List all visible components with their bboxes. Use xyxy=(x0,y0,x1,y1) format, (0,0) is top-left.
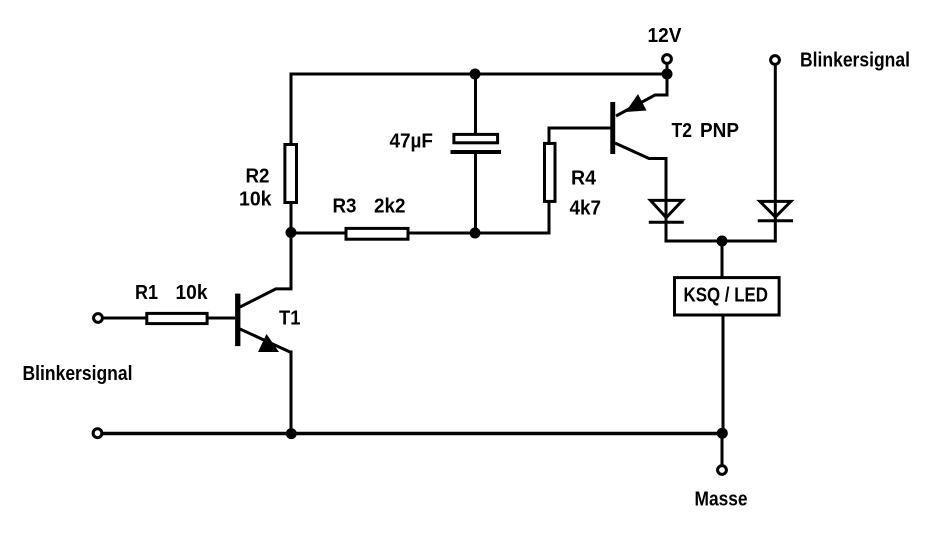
transistor T2 base bar xyxy=(610,102,615,154)
wire top rail to capacitor xyxy=(474,74,477,134)
node E junction dot xyxy=(717,236,728,247)
resistor R4 xyxy=(545,143,556,201)
node C junction dot (cap to top rail) xyxy=(470,69,481,80)
node D junction dot (12V) xyxy=(662,69,673,80)
terminal 12V open circle xyxy=(663,55,672,64)
wire T1 emitter xyxy=(240,329,291,433)
diode D1 cathode bar xyxy=(649,221,684,224)
svg-text:Masse: Masse xyxy=(695,489,748,511)
wire 12V terminal to rail xyxy=(666,63,669,74)
wire T2 emitter from 12V node xyxy=(616,74,667,116)
wire node E to KSQ box xyxy=(721,241,724,278)
diode D2 triangle xyxy=(760,201,791,217)
resistor R1 xyxy=(147,313,207,323)
diode D2 cathode bar xyxy=(758,219,793,222)
capacitor C1 47uF bottom plate xyxy=(451,150,502,154)
svg-text:Blinkersignal: Blinkersignal xyxy=(800,50,910,72)
resistor R2 xyxy=(285,145,297,203)
wire input terminal to R1 xyxy=(103,317,148,320)
svg-text:47µF: 47µF xyxy=(390,131,434,153)
transistor T1 emitter arrow xyxy=(258,334,279,352)
svg-text:10k: 10k xyxy=(239,189,272,211)
terminal input open circle (left top) xyxy=(94,314,103,323)
wire R1 to T1 base xyxy=(207,317,235,320)
svg-text:2k2: 2k2 xyxy=(374,196,406,218)
svg-text:12V: 12V xyxy=(648,25,683,47)
svg-text:T1: T1 xyxy=(279,308,301,330)
terminal Blinkersignal right open circle xyxy=(771,56,780,65)
wire node B to R4 bottom xyxy=(475,202,549,233)
svg-text:R4: R4 xyxy=(571,168,597,190)
transistor T2 emitter arrow xyxy=(626,94,647,112)
wire top rail from R2 top corner to 12V node xyxy=(291,74,667,145)
wire T2 collector down through diode D1 to node E xyxy=(615,143,722,241)
wire R4 top to T2 base xyxy=(549,128,611,145)
node A junction dot xyxy=(286,227,297,238)
capacitor C1 47uF top plate xyxy=(454,134,498,142)
wire R3 to node B xyxy=(408,232,475,235)
node B junction dot xyxy=(470,228,481,239)
resistor R3 xyxy=(346,228,408,239)
svg-text:R3: R3 xyxy=(333,196,357,218)
svg-text:R2: R2 xyxy=(246,166,270,188)
transistor T1 base bar xyxy=(235,294,240,347)
node F junction dot (T1 emitter to bottom rail) xyxy=(286,428,297,439)
node G junction dot (bottom rail to Masse) xyxy=(717,428,728,439)
diode D1 triangle xyxy=(651,200,683,217)
wire node A to R3 xyxy=(291,232,347,235)
wire capacitor bottom to node B xyxy=(474,154,477,233)
svg-text:4k7: 4k7 xyxy=(570,198,602,220)
svg-text:T2: T2 xyxy=(672,120,693,142)
svg-text:R1: R1 xyxy=(135,282,158,304)
wire KSQ box to bottom rail xyxy=(722,315,725,433)
terminal Masse open circle xyxy=(718,466,727,475)
svg-text:Blinkersignal: Blinkersignal xyxy=(23,363,133,385)
box KSQ / LED xyxy=(675,278,780,315)
wire right terminal down through diode D2 to node E xyxy=(722,64,775,241)
wire T1 collector to node A xyxy=(240,233,291,307)
wire node G to Masse terminal xyxy=(721,433,724,465)
svg-text:PNP: PNP xyxy=(700,120,739,142)
svg-text:10k: 10k xyxy=(176,282,209,304)
wire R2 bottom to node A xyxy=(290,202,293,233)
wire bottom rail xyxy=(101,432,722,435)
terminal bottom-left open circle xyxy=(93,429,102,438)
svg-text:KSQ / LED: KSQ / LED xyxy=(684,285,769,307)
